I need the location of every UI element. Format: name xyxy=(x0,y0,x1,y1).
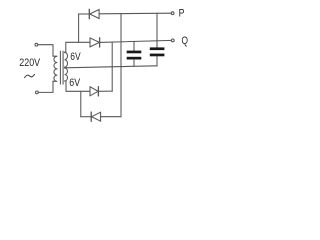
wire: top terminal to primary xyxy=(38,45,53,56)
wire: node A up to D1 cathode xyxy=(78,14,80,42)
wire: -V vertical bus D1-D4 xyxy=(120,14,122,117)
diode D2 xyxy=(90,38,100,47)
terminal P xyxy=(171,12,174,15)
svg-text:6V: 6V xyxy=(69,77,80,89)
transformer T1 core xyxy=(59,51,61,84)
wire: +V row from D2 to Q xyxy=(100,40,172,42)
capacitor C2 plates xyxy=(150,47,165,50)
wire: +V vertical bus D2-D3 xyxy=(111,42,113,91)
diode D1 xyxy=(79,9,172,18)
wire: P net down to C2 xyxy=(156,13,158,47)
label: ~ (AC) xyxy=(25,74,35,77)
wire: bottom terminal to primary xyxy=(38,81,53,92)
wire: node A (secondary top) to diode row xyxy=(65,42,90,52)
capacitor C1 plates xyxy=(127,51,142,54)
terminal: 220V input bottom xyxy=(36,91,39,94)
wire: node B (secondary bottom) to D3 row xyxy=(65,81,90,91)
terminal Q xyxy=(171,39,174,42)
svg-text:220V: 220V xyxy=(19,57,41,69)
diode D3 xyxy=(90,87,112,96)
diode D4 xyxy=(81,112,121,121)
wire: node B down to D4 xyxy=(80,91,82,116)
svg-text:P: P xyxy=(179,8,185,20)
wire: center tap to ground bus xyxy=(65,66,157,68)
capacitor C1 top stub xyxy=(133,42,135,51)
capacitor C2 bottom stub xyxy=(156,56,158,66)
terminal: 220V input top xyxy=(35,43,38,46)
svg-text:6V: 6V xyxy=(70,51,81,63)
transformer T1 primary winding xyxy=(53,56,57,81)
transformer T1 secondary bottom winding (6V) xyxy=(65,68,68,81)
capacitor C1 bottom stub xyxy=(133,60,135,67)
svg-text:Q: Q xyxy=(182,35,189,47)
transformer T1 secondary top winding (6V) xyxy=(65,52,68,67)
